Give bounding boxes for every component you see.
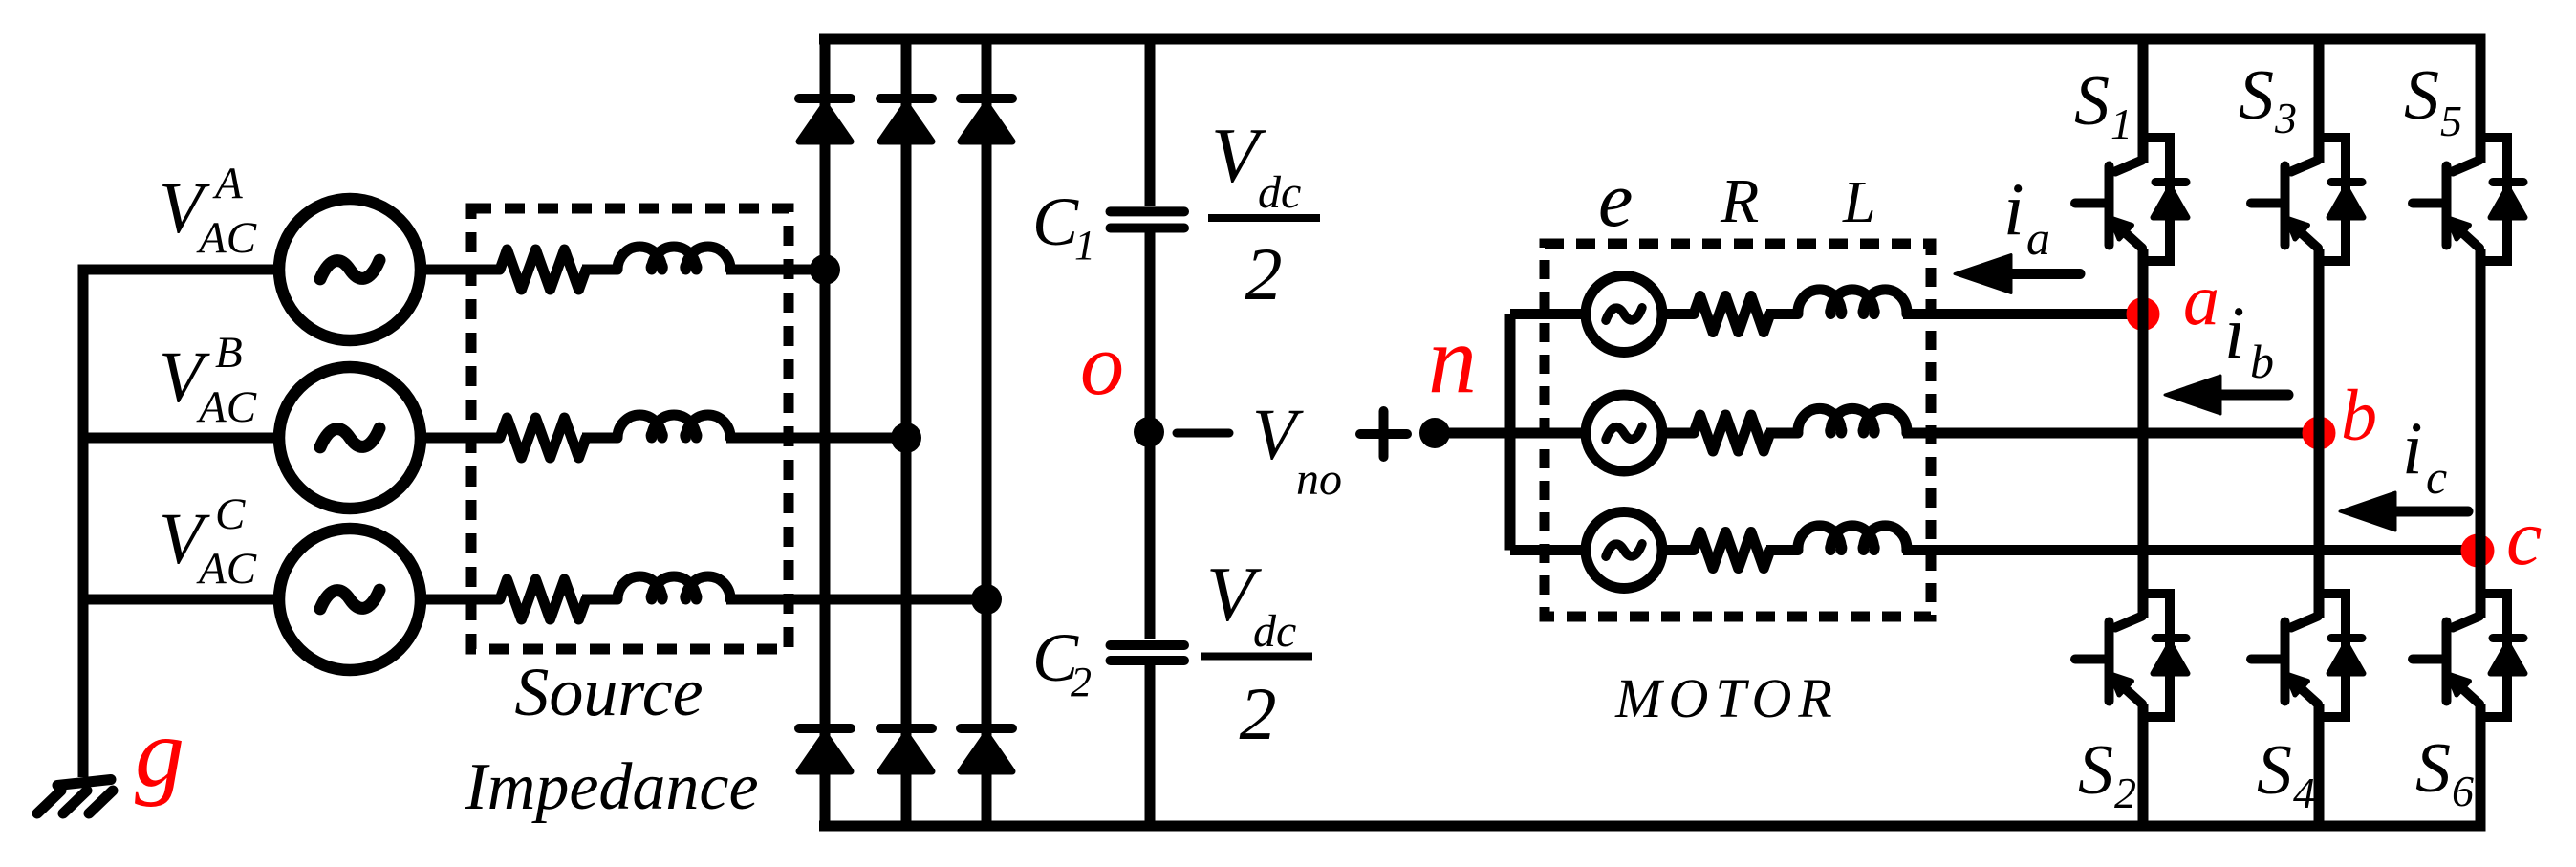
label ia xyxy=(2003,167,2050,265)
node n label xyxy=(1428,306,1477,414)
svg-text:S: S xyxy=(2257,731,2292,810)
resistor motor Rc xyxy=(1694,532,1770,569)
wire phase C resistor to inductor xyxy=(582,595,617,605)
label S4 xyxy=(2257,731,2315,817)
wire motor phase b output xyxy=(1903,428,2319,439)
inductor source impedance LC xyxy=(617,576,730,599)
diode D3 top leg2 xyxy=(880,98,932,141)
label MOTOR xyxy=(1614,667,1839,729)
label VAC B xyxy=(159,328,257,432)
wire phase A resistor to inductor xyxy=(582,265,617,275)
diode D5 top leg3 xyxy=(961,98,1012,141)
node n xyxy=(1419,418,1450,448)
wire motor c source to resistor xyxy=(1660,545,1694,555)
svg-text:dc: dc xyxy=(1253,606,1296,657)
svg-text:R: R xyxy=(1720,166,1759,236)
label S5 xyxy=(2404,56,2462,145)
svg-text:S: S xyxy=(2074,62,2110,141)
back-EMF source eb xyxy=(1586,395,1662,471)
label S2 xyxy=(2078,731,2136,817)
wire motor neutral bracket xyxy=(1510,314,1583,551)
svg-text:n: n xyxy=(1428,306,1477,414)
inductor source impedance LB xyxy=(617,415,730,438)
label S1 xyxy=(2074,62,2132,148)
label C1 xyxy=(1032,184,1095,269)
label Vdc/2 lower xyxy=(1201,551,1312,755)
back-EMF source ec xyxy=(1586,512,1662,589)
back-EMF source ea xyxy=(1586,276,1662,353)
node g label xyxy=(135,698,184,808)
svg-text:B: B xyxy=(215,328,243,378)
resistor source impedance RA xyxy=(500,249,586,290)
current arrow ib xyxy=(2165,376,2288,414)
svg-text:i: i xyxy=(2402,406,2423,489)
svg-text:4: 4 xyxy=(2293,769,2315,817)
svg-text:o: o xyxy=(1080,315,1124,413)
svg-text:MOTOR: MOTOR xyxy=(1614,667,1839,729)
AC source VAC-C xyxy=(279,529,421,670)
wire phase A from ground bus to source xyxy=(83,265,273,275)
current arrow ia xyxy=(1955,255,2080,293)
IGBT S4 xyxy=(2251,594,2364,717)
inductor motor La xyxy=(1798,290,1907,314)
diode D6 bottom leg3 xyxy=(961,728,1012,771)
node phase C rectifier junction xyxy=(971,584,1002,615)
IGBT S5 xyxy=(2413,138,2525,261)
label S3 xyxy=(2239,56,2297,142)
svg-text:Source: Source xyxy=(514,654,703,730)
wire phase C from ground bus to source xyxy=(83,595,273,605)
label Impedance xyxy=(464,750,758,824)
svg-text:3: 3 xyxy=(2274,94,2297,142)
node c label xyxy=(2506,493,2542,582)
resistor motor Rb xyxy=(1694,415,1770,451)
wire rectifier leg 2 xyxy=(901,34,912,832)
wire ground vertical bus xyxy=(78,265,89,778)
node o xyxy=(1134,417,1164,447)
wire phase C source to resistor xyxy=(421,595,500,605)
svg-text:AC: AC xyxy=(196,213,257,263)
svg-text:b: b xyxy=(2341,376,2377,456)
svg-text:1: 1 xyxy=(2111,99,2132,148)
diode D1 top leg1 xyxy=(799,98,851,141)
source impedance dashed box xyxy=(471,208,789,649)
node phase A rectifier junction xyxy=(810,254,840,285)
wire motor b resistor to inductor xyxy=(1766,428,1798,439)
wire phase C inductor to rectifier xyxy=(726,595,986,605)
svg-text:S: S xyxy=(2415,729,2451,808)
svg-text:dc: dc xyxy=(1258,167,1301,218)
current arrow ic xyxy=(2340,492,2468,531)
svg-text:b: b xyxy=(2250,335,2274,388)
svg-text:A: A xyxy=(212,159,243,208)
svg-text:C: C xyxy=(1032,184,1079,260)
wire motor phase c output xyxy=(1903,545,2480,555)
IGBT S2 xyxy=(2075,594,2188,717)
inductor motor Lc xyxy=(1798,526,1907,551)
wire phase B resistor to inductor xyxy=(582,433,617,444)
minus sign Vno xyxy=(1177,429,1229,438)
node b label xyxy=(2341,376,2377,456)
node phase B rectifier junction xyxy=(891,423,921,453)
wire motor b source to resistor xyxy=(1660,428,1694,439)
label C2 xyxy=(1032,619,1092,705)
wire phase B inductor to rectifier xyxy=(726,433,906,444)
svg-text:L: L xyxy=(1842,170,1875,235)
node o label xyxy=(1080,315,1124,413)
label VAC C xyxy=(159,489,257,594)
node b xyxy=(2303,417,2336,450)
svg-text:S: S xyxy=(2078,731,2113,810)
label Source xyxy=(514,654,703,730)
wire phase B source to resistor xyxy=(421,433,500,444)
svg-text:AC: AC xyxy=(196,382,257,432)
svg-text:C: C xyxy=(215,489,246,539)
wire rectifier leg 1 xyxy=(820,34,831,832)
svg-text:2: 2 xyxy=(1071,659,1092,705)
AC source VAC-A xyxy=(279,199,421,340)
svg-text:c: c xyxy=(2426,450,2447,504)
diode D4 bottom leg2 xyxy=(880,728,932,771)
resistor source impedance RB xyxy=(500,418,586,458)
label e xyxy=(1598,156,1633,243)
wire motor phase a output xyxy=(1903,309,2143,319)
wire phase A inductor to rectifier xyxy=(726,265,825,275)
wire rectifier leg 3 xyxy=(982,34,992,832)
svg-text:Impedance: Impedance xyxy=(464,750,758,824)
svg-text:g: g xyxy=(135,698,184,808)
node c xyxy=(2461,534,2495,568)
svg-text:1: 1 xyxy=(1074,222,1095,269)
svg-text:a: a xyxy=(2026,211,2050,265)
AC source VAC-B xyxy=(279,367,421,509)
IGBT S6 xyxy=(2413,594,2525,717)
wire inverter leg 3 xyxy=(2476,34,2486,832)
svg-text:S: S xyxy=(2404,56,2439,135)
label VAC A xyxy=(159,159,257,263)
IGBT S1 xyxy=(2075,138,2188,261)
svg-text:AC: AC xyxy=(196,544,257,594)
wire inverter leg 1 xyxy=(2138,34,2149,832)
label L xyxy=(1842,170,1875,235)
svg-text:i: i xyxy=(2224,291,2245,374)
svg-text:c: c xyxy=(2506,493,2542,582)
motor dashed box xyxy=(1545,244,1931,617)
svg-text:2: 2 xyxy=(2114,769,2136,817)
label Vno xyxy=(1252,395,1342,505)
IGBT S3 xyxy=(2251,138,2364,261)
diode D2 bottom leg1 xyxy=(799,728,851,771)
wire inverter leg 2 xyxy=(2314,34,2325,832)
label ic xyxy=(2402,406,2447,504)
svg-text:2: 2 xyxy=(1245,232,1283,315)
capacitor C1 xyxy=(1111,211,1185,228)
node a label xyxy=(2183,260,2219,340)
label S6 xyxy=(2415,729,2474,815)
resistor motor Ra xyxy=(1694,296,1770,333)
label Vdc/2 upper xyxy=(1208,112,1320,315)
wire phase A source to resistor xyxy=(421,265,500,275)
svg-text:e: e xyxy=(1598,156,1633,243)
svg-text:6: 6 xyxy=(2452,767,2474,815)
svg-text:i: i xyxy=(2003,167,2024,250)
label R xyxy=(1720,166,1759,236)
wire bottom DC bus xyxy=(819,821,2485,832)
wire motor a source to resistor xyxy=(1660,309,1694,319)
wire phase B from ground bus to source xyxy=(83,433,273,444)
label ib xyxy=(2224,291,2274,388)
wire motor c resistor to inductor xyxy=(1766,545,1798,555)
wire motor a resistor to inductor xyxy=(1766,309,1798,319)
inductor motor Lb xyxy=(1798,408,1907,433)
plus sign Vno xyxy=(1360,411,1407,457)
inductor source impedance LA xyxy=(617,247,730,270)
svg-text:no: no xyxy=(1296,454,1342,505)
node a xyxy=(2127,297,2160,331)
svg-text:5: 5 xyxy=(2440,97,2462,145)
svg-text:S: S xyxy=(2239,56,2274,135)
svg-text:2: 2 xyxy=(1240,672,1277,755)
wire DC-link column xyxy=(1145,39,1156,826)
wire n to motor bracket xyxy=(1435,428,1515,439)
resistor source impedance RC xyxy=(500,579,586,619)
wire top DC bus xyxy=(819,34,2485,45)
ground g xyxy=(37,780,113,814)
capacitor C2 xyxy=(1111,645,1185,661)
svg-text:a: a xyxy=(2183,260,2219,340)
